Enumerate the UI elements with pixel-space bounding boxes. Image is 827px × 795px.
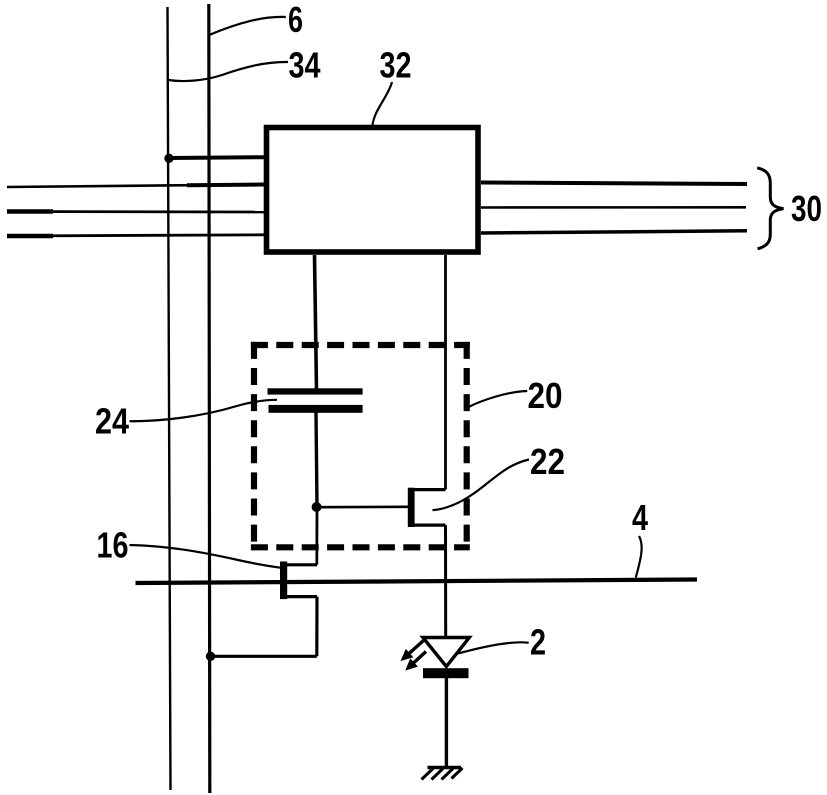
- leader line for label 4: [636, 536, 642, 578]
- wire: bus line 2 left segment: [7, 210, 264, 213]
- leader line for label 2: [458, 642, 529, 653]
- wire: bus line 3 left segment: [7, 235, 264, 236]
- block U32: driver circuit box: [267, 128, 479, 253]
- wire: thick vertical power line (net 6): [209, 4, 210, 793]
- diode D2: LED triangle: [423, 638, 469, 667]
- svg-text:32: 32: [380, 45, 412, 86]
- svg-text:4: 4: [632, 497, 648, 538]
- wire: thick horizontal from junction to block 32: [169, 155, 266, 160]
- transistor Q16: switching transistor: [280, 562, 317, 600]
- wire: node down to transistor 16: [315, 507, 318, 565]
- transistor Q22: drive transistor: [408, 488, 446, 527]
- svg-text:20: 20: [528, 375, 563, 416]
- leader line for label 32: [373, 82, 393, 126]
- svg-text:16: 16: [97, 525, 129, 566]
- leader line for label 24: [130, 400, 278, 421]
- svg-text:2: 2: [530, 622, 546, 663]
- LED emission arrow 2: [407, 652, 427, 670]
- wire: bus line 1 left segment: [7, 185, 264, 188]
- brace for bus 30: [757, 168, 783, 249]
- capacitor C24 top plate: [268, 388, 363, 394]
- leader line for label 22: [433, 460, 530, 511]
- wire: from box bottom to capacitor: [315, 255, 317, 390]
- svg-text:30: 30: [791, 188, 822, 229]
- wire: scan line 4: [136, 580, 698, 584]
- wire: thin vertical data line (net 34): [168, 7, 171, 790]
- wire: horizontal to power line: [209, 655, 316, 658]
- ground symbol: [422, 768, 463, 780]
- wire: from box bottom to transistor 22: [444, 255, 447, 490]
- LED emission arrow 1: [402, 641, 424, 660]
- wire: LED to ground: [445, 678, 448, 767]
- node: storage node dot: [312, 502, 322, 512]
- leader line for label 20: [468, 391, 528, 408]
- leader line for label 34: [169, 62, 289, 81]
- svg-text:6: 6: [288, 0, 303, 40]
- leader line for label 16: [130, 545, 282, 568]
- svg-text:34: 34: [289, 45, 321, 86]
- node: junction dot on power line bottom: [206, 652, 215, 661]
- dashed box: pixel circuit 20: [251, 342, 470, 551]
- wire: bus line 3 right segment: [481, 231, 747, 233]
- wire: transistor 22 to LED: [444, 525, 447, 638]
- svg-text:22: 22: [530, 441, 565, 482]
- wire: bus line 2 right segment: [481, 206, 746, 209]
- leader line for label 6: [210, 17, 286, 35]
- wire: capacitor bottom to node: [316, 412, 317, 507]
- node: junction dot on power line: [164, 154, 173, 163]
- wire: bus line 1 right segment: [481, 183, 747, 185]
- svg-text:24: 24: [95, 401, 129, 442]
- wire: gate wire of transistor 22: [317, 505, 408, 508]
- capacitor C24 bottom plate: [269, 405, 363, 413]
- wire: transistor 16 down: [315, 597, 318, 657]
- diode D2: cathode bar: [423, 668, 469, 678]
